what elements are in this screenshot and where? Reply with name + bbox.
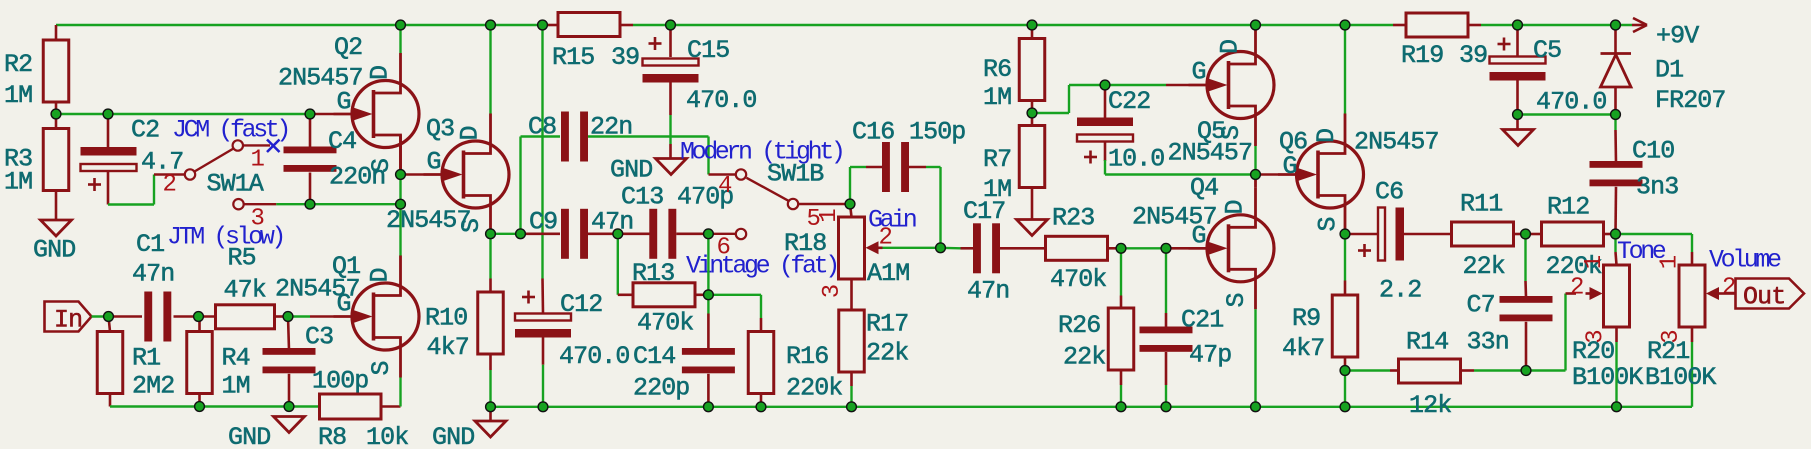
resistor R26 bbox=[1058, 248, 1134, 406]
switch SW1A bbox=[163, 140, 277, 232]
svg-text:G: G bbox=[1192, 222, 1206, 251]
wire +9V top rail right segment bbox=[1468, 24, 1632, 27]
wire C7 node to Tone wiper bbox=[1526, 294, 1576, 371]
wire +9V top rail middle segment bbox=[621, 24, 1407, 27]
capacitor C22 bbox=[1077, 85, 1164, 175]
svg-text:C14: C14 bbox=[633, 342, 675, 371]
resistor R5 bbox=[199, 244, 289, 329]
resistor R13 bbox=[618, 234, 709, 338]
svg-text:1M: 1M bbox=[4, 168, 32, 197]
svg-text:22k: 22k bbox=[1463, 252, 1505, 281]
svg-text:R4: R4 bbox=[222, 344, 250, 373]
switch SW1B bbox=[717, 160, 846, 262]
svg-text:1: 1 bbox=[816, 209, 843, 223]
transistor Q4 2N5457 bbox=[1132, 174, 1274, 407]
svg-text:C3: C3 bbox=[305, 323, 333, 352]
ground GND R7 bbox=[1017, 220, 1048, 236]
svg-text:GND: GND bbox=[228, 423, 270, 449]
wire In to C1 bbox=[92, 315, 109, 317]
svg-text:1M: 1M bbox=[983, 175, 1011, 204]
capacitor C3 bbox=[263, 317, 369, 407]
label In port bbox=[45, 302, 92, 335]
wire R18 wiper bbox=[883, 247, 941, 249]
transistor Q1 2N5457 bbox=[275, 252, 419, 407]
ground GND main bbox=[432, 407, 506, 449]
potentiometer R18 A1M bbox=[784, 204, 909, 298]
svg-text:1M: 1M bbox=[222, 372, 250, 401]
wire R13 node down bbox=[707, 234, 709, 314]
svg-text:S: S bbox=[1314, 217, 1343, 231]
junction bbox=[1611, 229, 1621, 239]
svg-text:2: 2 bbox=[1722, 275, 1735, 302]
junction bbox=[104, 312, 114, 322]
svg-text:470k: 470k bbox=[1050, 265, 1106, 294]
wire gate row Q2 bbox=[56, 113, 310, 115]
junction bbox=[305, 199, 315, 209]
svg-text:R13: R13 bbox=[632, 259, 674, 288]
wire R20 bottom bbox=[1615, 342, 1617, 407]
svg-text:C16: C16 bbox=[852, 118, 894, 147]
wire R6R7 to C22 node bbox=[1032, 85, 1105, 113]
svg-text:R5: R5 bbox=[228, 244, 256, 273]
junction bbox=[538, 20, 548, 30]
svg-text:C4: C4 bbox=[328, 127, 356, 156]
junction bbox=[1161, 402, 1171, 412]
junction bbox=[396, 20, 406, 30]
junction bbox=[1100, 80, 1110, 90]
transistor Q5 2N5457 bbox=[1105, 24, 1274, 175]
svg-text:C13: C13 bbox=[621, 183, 663, 212]
svg-text:1: 1 bbox=[251, 147, 265, 174]
junction bbox=[613, 229, 623, 239]
svg-text:4k7: 4k7 bbox=[427, 333, 469, 362]
svg-text:R15: R15 bbox=[552, 43, 594, 72]
wire R23 to gate node bbox=[1121, 247, 1166, 249]
svg-text:GND: GND bbox=[610, 156, 652, 185]
resistor R8 bbox=[318, 394, 408, 449]
svg-text:C15: C15 bbox=[687, 36, 729, 65]
junction bbox=[704, 229, 714, 239]
junction bbox=[847, 402, 857, 412]
ground GND R3 bbox=[33, 220, 75, 265]
junction bbox=[1611, 110, 1621, 120]
junction bbox=[1340, 20, 1350, 30]
junction bbox=[1513, 20, 1523, 30]
resistor R3 bbox=[4, 114, 69, 220]
svg-text:G: G bbox=[1283, 152, 1297, 181]
label JCM (fast) bbox=[172, 116, 288, 145]
svg-text:22n: 22n bbox=[590, 113, 632, 142]
svg-text:G: G bbox=[1192, 58, 1206, 87]
junction bbox=[1611, 20, 1621, 30]
svg-text:R17: R17 bbox=[866, 310, 908, 339]
wire R21 wiper to Out bbox=[1723, 292, 1736, 295]
junction bbox=[704, 402, 714, 412]
svg-text:R12: R12 bbox=[1547, 193, 1589, 222]
capacitor C7 bbox=[1467, 234, 1553, 371]
svg-text:R10: R10 bbox=[425, 304, 467, 333]
wire SW1A pin3 to C4 bottom bbox=[276, 203, 310, 205]
svg-text:D: D bbox=[1221, 200, 1250, 214]
svg-text:D: D bbox=[366, 268, 395, 282]
junction bbox=[194, 312, 204, 322]
junction bbox=[103, 109, 113, 119]
svg-text:47n: 47n bbox=[132, 260, 174, 289]
potentiometer R20 B100K bbox=[1570, 255, 1643, 392]
svg-text:47p: 47p bbox=[1189, 341, 1231, 370]
svg-text:Out: Out bbox=[1743, 283, 1785, 312]
svg-text:R18: R18 bbox=[784, 229, 826, 258]
junction bbox=[396, 170, 406, 180]
svg-text:S: S bbox=[1217, 126, 1246, 140]
svg-text:R9: R9 bbox=[1292, 304, 1320, 333]
resistor R1 bbox=[97, 317, 174, 407]
ground GND C15 bbox=[610, 156, 687, 185]
resistor R17 bbox=[839, 279, 909, 407]
junction bbox=[1521, 366, 1531, 376]
svg-text:G: G bbox=[337, 88, 351, 117]
junction bbox=[704, 290, 714, 300]
label Tone bbox=[1617, 237, 1666, 266]
wire +9V top rail left segment bbox=[56, 24, 558, 26]
svg-text:4k7: 4k7 bbox=[1282, 334, 1324, 363]
junction bbox=[1027, 20, 1037, 30]
wire tone node bbox=[1616, 234, 1617, 265]
svg-text:22k: 22k bbox=[866, 339, 908, 368]
resistor R11 bbox=[1452, 190, 1526, 282]
wire C4 bottom to Q1 drain node bbox=[310, 203, 401, 205]
svg-text:4: 4 bbox=[718, 173, 732, 200]
transistor Q3 2N5457 bbox=[386, 25, 509, 236]
svg-text:10k: 10k bbox=[366, 423, 408, 449]
svg-text:2M2: 2M2 bbox=[132, 372, 174, 401]
resistor R9 bbox=[1282, 234, 1358, 370]
resistor R14 bbox=[1345, 328, 1526, 421]
svg-text:FR207: FR207 bbox=[1655, 86, 1726, 115]
svg-text:C6: C6 bbox=[1375, 178, 1403, 207]
junction bbox=[486, 229, 496, 239]
svg-text:C12: C12 bbox=[560, 290, 602, 319]
junction bbox=[305, 109, 315, 119]
label Out port bbox=[1736, 279, 1805, 312]
junction bbox=[936, 243, 946, 253]
svg-text:1M: 1M bbox=[983, 83, 1011, 112]
svg-text:C10: C10 bbox=[1632, 137, 1674, 166]
label Volume bbox=[1709, 246, 1781, 275]
wire Q3 source to R10 bbox=[489, 234, 491, 279]
junction bbox=[1340, 366, 1350, 376]
junction bbox=[1251, 20, 1261, 30]
junction bbox=[538, 402, 548, 412]
label Gain bbox=[868, 206, 916, 235]
junction bbox=[486, 20, 496, 30]
svg-text:39: 39 bbox=[1459, 41, 1487, 70]
junction bbox=[1513, 110, 1523, 120]
wire Q3 source node bbox=[491, 233, 521, 235]
capacitor C17 bbox=[941, 197, 1046, 306]
capacitor C6 bbox=[1345, 178, 1452, 305]
svg-text:47n: 47n bbox=[967, 277, 1009, 306]
capacitor C16 bbox=[850, 118, 965, 205]
junction bbox=[1116, 402, 1126, 412]
junction bbox=[1340, 402, 1350, 412]
resistor R4 bbox=[187, 317, 250, 407]
svg-text:12k: 12k bbox=[1409, 391, 1451, 420]
svg-text:10.0: 10.0 bbox=[1108, 145, 1164, 174]
capacitor C15 bbox=[643, 25, 757, 159]
svg-text:R7: R7 bbox=[983, 145, 1011, 174]
power arrow +9V bbox=[1632, 18, 1699, 51]
svg-text:R23: R23 bbox=[1052, 204, 1094, 233]
svg-text:3: 3 bbox=[1583, 330, 1610, 343]
wire C13 to SW1B pin6 bbox=[708, 233, 735, 235]
wire C8 to SW1B pin4 bbox=[709, 137, 736, 175]
svg-text:A1M: A1M bbox=[867, 259, 909, 288]
wire rail to C12 bbox=[541, 25, 544, 314]
junction bbox=[756, 402, 766, 412]
svg-text:D: D bbox=[366, 66, 395, 80]
potentiometer R21 B100K bbox=[1645, 255, 1735, 392]
svg-text:Q3: Q3 bbox=[426, 115, 454, 144]
capacitor C12 bbox=[515, 290, 630, 407]
svg-text:C22: C22 bbox=[1108, 87, 1150, 116]
svg-text:C7: C7 bbox=[1467, 291, 1495, 320]
svg-text:S: S bbox=[457, 219, 486, 233]
capacitor C5 bbox=[1490, 25, 1607, 117]
svg-text:Gain: Gain bbox=[868, 206, 916, 235]
junction bbox=[1251, 402, 1261, 412]
svg-text:R1: R1 bbox=[132, 344, 160, 373]
wire Q2 source to Q1 drain bbox=[399, 175, 401, 257]
svg-text:C2: C2 bbox=[131, 116, 159, 145]
svg-text:D: D bbox=[456, 126, 485, 140]
label Modern (tight) bbox=[680, 138, 842, 167]
svg-text:D1: D1 bbox=[1655, 56, 1683, 85]
svg-text:33n: 33n bbox=[1467, 328, 1509, 357]
svg-text:220p: 220p bbox=[633, 374, 689, 403]
junction bbox=[1521, 229, 1531, 239]
svg-text:2N5457: 2N5457 bbox=[1168, 139, 1253, 168]
svg-text:3n3: 3n3 bbox=[1636, 173, 1678, 202]
junction bbox=[1161, 243, 1171, 253]
resistor R16 bbox=[748, 318, 842, 407]
svg-text:2: 2 bbox=[163, 172, 176, 199]
svg-text:Q2: Q2 bbox=[334, 33, 362, 62]
svg-text:470.0: 470.0 bbox=[1536, 88, 1607, 117]
resistor R2 bbox=[4, 25, 69, 114]
svg-text:S: S bbox=[367, 159, 396, 173]
ground GND input bbox=[228, 417, 305, 449]
svg-text:D: D bbox=[1216, 40, 1245, 54]
wire C2 to SW1A bbox=[108, 175, 185, 205]
label Vintage (fat) bbox=[686, 252, 837, 281]
svg-text:R14: R14 bbox=[1406, 328, 1448, 357]
svg-text:2.2: 2.2 bbox=[1379, 276, 1421, 305]
resistor R10 bbox=[425, 279, 503, 407]
svg-text:220k: 220k bbox=[786, 374, 842, 403]
label JTM (slow) bbox=[167, 223, 283, 252]
svg-text:1: 1 bbox=[1581, 255, 1608, 269]
svg-text:470.0: 470.0 bbox=[686, 86, 757, 115]
svg-text:D: D bbox=[1312, 129, 1341, 143]
wire C22 bottom to node bbox=[1105, 173, 1256, 175]
ground GND C5 bbox=[1503, 115, 1534, 146]
junction bbox=[396, 199, 406, 209]
svg-text:1M: 1M bbox=[4, 81, 32, 110]
capacitor C1 bbox=[109, 230, 199, 342]
wire main ground rail bbox=[491, 342, 1693, 407]
junction bbox=[283, 312, 293, 322]
svg-text:22k: 22k bbox=[1063, 343, 1105, 372]
capacitor C8 bbox=[528, 112, 709, 162]
resistor R19 bbox=[1401, 13, 1487, 70]
junction bbox=[284, 402, 294, 412]
svg-text:47k: 47k bbox=[224, 276, 266, 305]
svg-text:GND: GND bbox=[33, 236, 75, 265]
junction bbox=[845, 199, 855, 209]
capacitor C21 bbox=[1140, 248, 1232, 406]
svg-text:150p: 150p bbox=[909, 118, 965, 147]
capacitor C9 bbox=[521, 208, 634, 259]
svg-text:In: In bbox=[54, 306, 82, 335]
wire C16 right down bbox=[939, 167, 941, 248]
junction bbox=[1251, 170, 1261, 180]
junction bbox=[1027, 108, 1037, 118]
transistor Q2 2N5457 bbox=[278, 25, 419, 175]
wire R13 node to R16 bbox=[708, 295, 761, 318]
wire Q1 gate bbox=[288, 315, 310, 317]
junction bbox=[1612, 402, 1622, 412]
resistor R23 bbox=[1046, 204, 1122, 295]
svg-text:S: S bbox=[367, 361, 396, 375]
resistor R15 bbox=[552, 13, 639, 73]
svg-text:GND: GND bbox=[432, 423, 474, 449]
svg-text:+9V: +9V bbox=[1656, 22, 1699, 51]
capacitor C4 bbox=[284, 114, 386, 204]
svg-text:470k: 470k bbox=[637, 309, 693, 338]
resistor R12 bbox=[1526, 193, 1616, 282]
transistor Q6 2N5457 bbox=[1256, 25, 1439, 236]
svg-text:1: 1 bbox=[1657, 255, 1684, 269]
capacitor C2 bbox=[81, 114, 184, 205]
resistor R6 bbox=[983, 25, 1045, 113]
resistor R7 bbox=[983, 113, 1045, 220]
svg-text:470.0: 470.0 bbox=[559, 342, 630, 371]
svg-text:C9: C9 bbox=[529, 208, 557, 237]
wire R9 bottom to rail bbox=[1344, 371, 1346, 407]
svg-text:G: G bbox=[337, 290, 351, 319]
wire C8 branch riser bbox=[521, 137, 561, 234]
svg-text:SW1A: SW1A bbox=[207, 170, 264, 199]
junction bbox=[516, 229, 526, 239]
no-connect X SW1A pin1 bbox=[267, 140, 280, 153]
svg-text:R2: R2 bbox=[4, 50, 32, 79]
svg-text:B100K: B100K bbox=[1645, 363, 1716, 392]
svg-text:C5: C5 bbox=[1533, 36, 1561, 65]
svg-text:3: 3 bbox=[819, 285, 846, 298]
junction bbox=[195, 402, 205, 412]
junction bbox=[1340, 229, 1350, 239]
junction bbox=[51, 109, 61, 119]
junction bbox=[486, 402, 496, 412]
wire to volume pot bbox=[1616, 234, 1693, 265]
svg-text:3: 3 bbox=[1658, 330, 1685, 343]
svg-text:JCM (fast): JCM (fast) bbox=[172, 116, 288, 145]
svg-text:B100K: B100K bbox=[1572, 363, 1643, 392]
junction bbox=[666, 20, 676, 30]
svg-text:G: G bbox=[427, 148, 441, 177]
svg-text:2N5457: 2N5457 bbox=[1354, 128, 1439, 157]
capacitor C13 bbox=[618, 183, 734, 259]
svg-text:47n: 47n bbox=[591, 208, 633, 237]
svg-text:2: 2 bbox=[1570, 275, 1583, 302]
capacitor C10 bbox=[1590, 115, 1679, 235]
svg-text:C1: C1 bbox=[136, 230, 164, 259]
wire input ground rail bbox=[110, 405, 320, 407]
svg-text:100p: 100p bbox=[312, 367, 368, 396]
svg-text:R19: R19 bbox=[1401, 41, 1443, 70]
capacitor C14 bbox=[633, 314, 735, 407]
svg-text:Q4: Q4 bbox=[1190, 174, 1218, 203]
svg-text:C8: C8 bbox=[528, 113, 556, 142]
svg-text:C21: C21 bbox=[1181, 306, 1223, 335]
svg-text:R11: R11 bbox=[1460, 190, 1502, 219]
svg-text:R16: R16 bbox=[786, 342, 828, 371]
wire C5 gnd node to D1 bbox=[1518, 113, 1616, 115]
junction bbox=[1116, 243, 1126, 253]
svg-text:JTM (slow): JTM (slow) bbox=[167, 223, 283, 252]
svg-text:R6: R6 bbox=[983, 55, 1011, 84]
svg-text:S: S bbox=[1222, 293, 1251, 307]
diode D1 FR207 bbox=[1601, 25, 1726, 115]
svg-text:R26: R26 bbox=[1058, 311, 1100, 340]
svg-text:Volume: Volume bbox=[1709, 246, 1781, 275]
svg-text:Modern (tight): Modern (tight) bbox=[680, 138, 842, 167]
svg-text:39: 39 bbox=[611, 43, 639, 72]
svg-text:R8: R8 bbox=[318, 423, 346, 449]
